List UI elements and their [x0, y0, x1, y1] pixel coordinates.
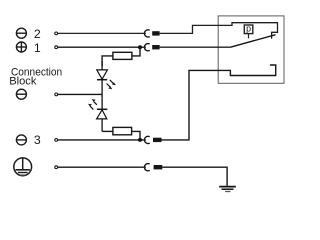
svg-text:2: 2	[34, 27, 41, 41]
resistor R2 lead left	[102, 130, 113, 132]
terminal symbol minus 2	[16, 28, 26, 38]
resistor R1 lead left	[102, 56, 113, 66]
resistor R2 lead right	[132, 131, 140, 140]
terminal symbol minus 3	[16, 135, 26, 145]
ground symbol	[219, 187, 236, 192]
connector pair row 1 (socket arc)	[144, 44, 149, 51]
junction dot row 1 / resistor R1	[138, 45, 142, 49]
resistor R2 body	[113, 127, 132, 134]
resistor R1 branch lead right	[132, 47, 140, 56]
LED D1 (cathode down)	[97, 61, 108, 94]
connector pair row 2 (socket arc)	[144, 30, 149, 37]
wire row 2 to pressure switch box	[160, 23, 278, 39]
terminal symbol minus (connection block)	[16, 89, 26, 99]
connector pair row 3 (plug pin)	[153, 138, 162, 142]
resistor R1 body	[113, 52, 132, 59]
connector pair earth row (plug pin)	[154, 165, 163, 169]
connector pair earth row (socket arc)	[144, 164, 149, 171]
LED D1 emission arrows	[107, 80, 116, 89]
wire row 1 to switch common	[160, 46, 231, 48]
node open dot row 3	[55, 139, 58, 142]
wire row 2 horizontal	[58, 32, 146, 34]
svg-text:3: 3	[34, 133, 41, 147]
connector pair row 1 (plug pin)	[152, 45, 159, 49]
terminal symbol plus 1	[16, 42, 26, 52]
actuator link line	[248, 34, 250, 39]
node open dot connection block	[55, 93, 58, 96]
wire row 1 horizontal	[58, 46, 146, 48]
svg-text:p: p	[246, 24, 251, 34]
wire connection block to led chain	[58, 93, 102, 95]
pressure switch enclosure box	[218, 16, 284, 83]
wire row 3 horizontal	[58, 139, 146, 141]
LED D2 (cathode up)	[97, 94, 108, 131]
switch arm (common from row 1)	[231, 35, 276, 48]
connector pair row 2 (plug pin)	[152, 31, 159, 35]
LED D2 emission arrows	[88, 99, 97, 109]
connector pair row 3 (socket arc)	[144, 136, 149, 143]
wire earth row horizontal	[58, 166, 146, 168]
node open dot row 2	[55, 32, 58, 35]
junction dot row 3 / resistor R2	[138, 138, 142, 142]
svg-text:Block: Block	[9, 76, 36, 88]
node open dot earth row	[55, 166, 58, 169]
node open dot row 1	[55, 46, 58, 49]
svg-text:1: 1	[34, 41, 41, 55]
terminal symbol protective earth	[14, 158, 32, 176]
wire row 3 to box lower contact	[162, 65, 276, 140]
wire earth row to ground	[162, 167, 227, 186]
pressure actuator p box	[244, 25, 253, 34]
